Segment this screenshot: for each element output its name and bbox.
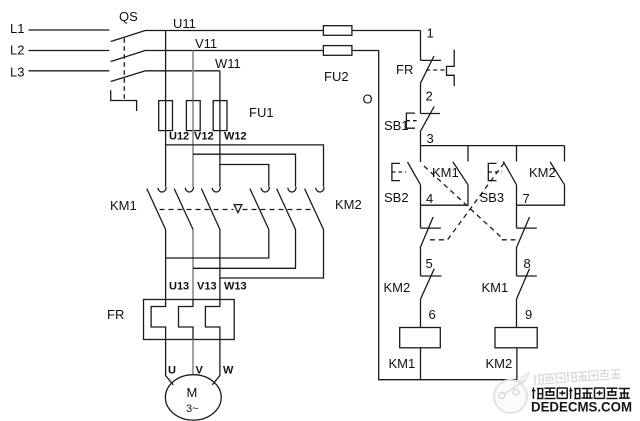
KM2 NC blade xyxy=(421,269,435,299)
wire W12 below fuse xyxy=(219,131,221,187)
SB2 actuator rod dashed xyxy=(392,171,406,173)
FR heater V (gray feed) xyxy=(179,300,194,340)
wire KM1 aux top drop xyxy=(467,146,469,162)
SB2 NO blade xyxy=(408,162,421,185)
fuse FU1b xyxy=(186,101,200,131)
KM1 aux NO blade xyxy=(453,162,468,185)
wire SB2 top drop xyxy=(420,146,422,162)
thermal relay FR box xyxy=(144,300,235,340)
FR heater U xyxy=(151,300,166,340)
wire 1-2 xyxy=(420,84,422,114)
KM2 main contact pole2 blade xyxy=(277,189,296,230)
wire coil KM2 bottom xyxy=(516,348,518,380)
SB1 NC bar xyxy=(421,113,441,115)
wire 2-3 xyxy=(420,132,422,146)
motor lead V (gray) xyxy=(192,340,194,375)
wire U12 below fuse xyxy=(165,131,167,187)
wire V12 below fuse (gray) xyxy=(192,131,194,187)
FR NC contact blade xyxy=(420,56,434,84)
wire W phase drop to fuse xyxy=(219,71,221,101)
motor lead U xyxy=(166,340,174,385)
KM1 main contact pole2 arc xyxy=(185,187,193,192)
wire V11 xyxy=(146,50,379,52)
watermark line 1 织梦内容管理系统 xyxy=(532,388,630,399)
KM2 main contact pole1 blade xyxy=(250,189,269,230)
KM1 NC bar xyxy=(517,275,537,277)
wire 5-6 xyxy=(420,299,422,327)
switch QS blade 1 xyxy=(111,30,146,41)
KM2 main contact pole3 blade xyxy=(305,189,324,230)
wire crossover W12 to KM2 pole1 xyxy=(220,165,269,187)
KM1 main contact pole3 blade xyxy=(201,189,220,230)
watermark ghost text 织梦内容管理系统 xyxy=(533,369,620,385)
wire L3 xyxy=(29,70,110,72)
wire W11 xyxy=(146,70,220,72)
SB3 NC contact blade xyxy=(420,217,433,248)
SB2 NC contact blade xyxy=(516,217,529,248)
SB3 actuator xyxy=(488,163,496,180)
SB3 actuator rod dashed xyxy=(488,171,502,173)
KM2 NC bar xyxy=(421,275,442,277)
FR heater W xyxy=(205,300,220,340)
wire L1 xyxy=(29,29,110,31)
SB1 actuator xyxy=(406,113,415,128)
fuse FU1c xyxy=(213,101,227,131)
switch QS linkage dashed xyxy=(123,38,125,99)
wire SB3 bottom xyxy=(516,185,518,228)
wire KM2 pole3 bottom join xyxy=(220,230,324,279)
switch QS handle bracket xyxy=(111,90,137,111)
KM1 main contact pole3 arc xyxy=(212,187,220,192)
wire V phase drop to fuse (gray) xyxy=(192,51,194,101)
SB1 NC blade xyxy=(420,106,434,132)
fuse FU1a xyxy=(159,101,173,131)
interlock dashed SB2 to right NC xyxy=(424,166,516,240)
wire SB2 bottom xyxy=(420,185,422,228)
svg-text:DEDECMS.COM: DEDECMS.COM xyxy=(531,399,632,415)
FR NC actuator element xyxy=(447,50,455,86)
SB3 NC contact bar (left branch) xyxy=(421,227,441,229)
KM2 main contact pole2 arc xyxy=(288,187,296,192)
interlock dashed SB3 to left NC xyxy=(426,163,504,240)
SB2 actuator xyxy=(392,163,400,180)
KM1 NC blade xyxy=(517,269,530,299)
wire control left 0 line xyxy=(379,51,517,380)
wire KM1 aux bottom xyxy=(421,185,469,205)
wire KM2 pole1 bottom join xyxy=(166,230,269,259)
fuse FU2a xyxy=(323,26,352,36)
wire KM2 aux top drop xyxy=(564,146,566,162)
KM2 aux NO blade xyxy=(550,162,564,185)
FR NC actuator dashed xyxy=(426,69,447,71)
wire KM2 pole2 bottom join xyxy=(193,230,296,269)
KM2 linkage dashed xyxy=(243,209,313,211)
fuse FU2b xyxy=(323,46,352,56)
wire coil KM1 bottom xyxy=(420,348,422,380)
wire U phase drop to fuse xyxy=(165,31,167,101)
switch QS blade 3 xyxy=(111,71,146,82)
wire control phase drop xyxy=(420,31,422,61)
wire SB3 top drop xyxy=(516,146,518,162)
coil KM2 xyxy=(495,328,537,348)
wire 8-9 xyxy=(516,299,518,327)
wire L2 xyxy=(29,50,110,52)
motor M circle xyxy=(165,375,221,420)
switch QS blade 2 xyxy=(111,50,146,61)
wire KM1 pole2 bottom (gray) xyxy=(192,230,194,300)
wire crossover V12 to KM2 pole2 xyxy=(193,154,296,187)
FR NC contact bar xyxy=(421,59,442,61)
KM1 main contact pole1 arc xyxy=(158,187,166,192)
KM2 main contact pole1 arc xyxy=(261,187,269,192)
wire U11 xyxy=(146,30,421,32)
SB1 actuator rod dashed xyxy=(406,120,419,122)
SB3 NO blade xyxy=(503,161,516,184)
wire crossover U12 to KM2 pole3 xyxy=(166,145,324,187)
KM1 main contact pole1 blade xyxy=(147,189,166,230)
wire KM1 pole1 bottom xyxy=(165,230,167,300)
wire 7-8 xyxy=(516,248,518,276)
wire KM2 aux bottom xyxy=(517,185,565,205)
coil KM1 xyxy=(400,328,441,348)
wire bus node 3 xyxy=(421,145,565,147)
wire KM1 pole3 bottom xyxy=(219,230,221,300)
KM1 main contact pole2 blade xyxy=(174,189,193,230)
KM2 main contact pole3 arc xyxy=(316,187,324,192)
KM1 linkage dashed xyxy=(160,209,234,211)
SB2 NC contact bar (right branch) xyxy=(517,227,537,229)
motor lead W xyxy=(212,340,220,385)
linkage triangle xyxy=(234,205,242,213)
wire 4-5 xyxy=(420,248,422,276)
